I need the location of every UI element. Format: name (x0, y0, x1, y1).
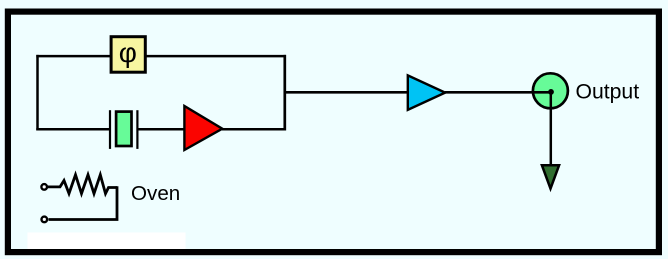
wire feedback left vertical (36, 55, 39, 130)
crystal body (116, 112, 131, 146)
wire buffer to output node (445, 91, 551, 94)
phase shifter box (111, 37, 145, 72)
ground arrow (dark green) (542, 165, 559, 188)
wire feedback top-left horizontal (36, 55, 111, 58)
resistor heater zigzag (48, 175, 117, 194)
oven terminal 2 (42, 217, 48, 223)
svg-text:φ: φ (119, 37, 137, 68)
wire amplifier output (222, 128, 286, 131)
wire output node down to ground arrow (550, 92, 553, 165)
junction dot at output node (548, 89, 554, 95)
svg-text:Oven: Oven (131, 182, 180, 205)
oven terminal 1 (41, 184, 47, 190)
buffer amplifier (blue triangle) (408, 75, 445, 110)
svg-text:Output: Output (576, 81, 640, 104)
crystal right plate (136, 110, 138, 149)
node Output (green circle junction) (533, 73, 568, 108)
wire feedback right vertical (283, 55, 286, 131)
wire oven right vertical and bottom return (49, 186, 118, 219)
wire crystal to amplifier (137, 128, 185, 131)
wire junction to buffer (285, 91, 408, 94)
wire feedback top-right horizontal (146, 55, 287, 58)
amplifier (red triangle) (184, 106, 222, 150)
crystal left plate (109, 110, 111, 149)
wire to crystal input (36, 128, 110, 131)
